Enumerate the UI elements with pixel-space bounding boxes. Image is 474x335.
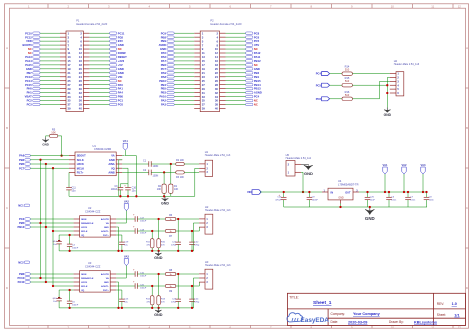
svg-text:NC2: NC2 [18,260,24,264]
resistor R15 510 [330,76,353,87]
svg-text:10u: 10u [132,190,137,193]
connector H5 Header-Male 2.54_1x2 [286,153,312,176]
svg-text:39: 39 [68,107,72,111]
connector P2 Header-Female 2.54_2x20 [159,19,262,112]
svg-text:PA3: PA3 [161,103,167,107]
svg-text:U4: U4 [338,179,342,183]
capacitor C16 10u [53,290,74,308]
svg-text:SDIN: SDIN [81,219,87,221]
svg-text:L79M05ABDT-TR: L79M05ABDT-TR [338,183,359,187]
svg-text:OUT: OUT [345,191,351,194]
resistor R14 510 [330,65,353,76]
svg-text:PB14: PB14 [254,83,261,87]
svg-text:PB1: PB1 [254,75,260,79]
connector H2 Header-Male 2.54_1x3 [199,205,231,234]
svg-text:VQ: VQ [81,235,84,237]
svg-text:PA8: PA8 [161,75,167,79]
U3 input net flags [17,272,30,284]
svg-text:PH1: PH1 [27,91,33,95]
svg-text:PC3: PC3 [19,217,25,221]
junction LRCK bus [45,163,47,165]
svg-text:PA1: PA1 [118,87,124,91]
svg-text:PB5: PB5 [19,221,25,225]
svg-text:Your Company: Your Company [353,312,381,316]
svg-text:VA2: VA2 [401,163,407,167]
svg-text:PC11: PC11 [118,31,125,35]
svg-text:GND: GND [109,158,115,162]
junction C4 top [68,234,70,236]
title block [287,293,465,325]
svg-text:GND: GND [365,216,375,221]
junction C7 flag [403,191,405,193]
wire H4 gnd bus [387,78,390,108]
svg-text:FILT+: FILT+ [103,290,109,292]
svg-text:PA4: PA4 [118,91,124,95]
resistor R11 470 [146,231,154,251]
svg-text:PC1: PC1 [118,99,124,103]
svg-text:100uF: 100uF [140,232,147,234]
svg-text:C: C [466,206,468,210]
op-amp U3 CS4344-CZZ [74,261,117,292]
svg-text:PA10: PA10 [18,280,25,284]
svg-text:PC8: PC8 [254,31,260,35]
capacitor C18 100uF [116,226,147,235]
svg-text:C: C [6,206,8,210]
power flag VA (C6) [382,163,388,192]
wire U1 GND pin drop [119,160,122,197]
svg-text:12: 12 [458,4,462,8]
svg-text:470p: 470p [171,245,177,247]
svg-text:CS4344-CZZ: CS4344-CZZ [85,264,101,268]
svg-text:NC: NC [254,47,258,51]
capacitor C23 470p [171,274,181,308]
svg-text:VBAT: VBAT [25,95,32,99]
resistor R6 1k [165,214,175,221]
junctions bus taps [39,222,41,224]
svg-text:PA0: PA0 [118,83,124,87]
svg-text:PB0: PB0 [118,95,124,99]
U1 input net flags [19,154,69,171]
junction C8 flag [422,191,424,193]
svg-text:LRCK: LRCK [81,227,87,229]
svg-text:470p: 470p [194,302,200,304]
junction rail C16 [127,195,129,197]
svg-text:CS5343-CZZR: CS5343-CZZR [94,147,111,151]
svg-text:NC: NC [254,103,258,107]
svg-text:VA: VA [106,222,109,225]
U2 input net flags [17,217,30,229]
svg-text:100nF: 100nF [72,248,79,250]
svg-text:Header-Female-2.54_2x20: Header-Female-2.54_2x20 [76,22,108,26]
svg-text:MCLK: MCLK [77,166,85,170]
wire header pin2 to rail [193,223,199,251]
svg-text:GND: GND [384,113,392,117]
svg-text:PC3: PC3 [27,103,33,107]
resistor R8 1k [165,269,175,276]
junction H4 a [386,84,388,86]
svg-text:DEM#MCLK: DEM#MCLK [81,278,94,280]
svg-text:PC10: PC10 [25,31,32,35]
svg-text:VA1: VA1 [123,139,129,143]
junction R10 top [157,218,159,220]
svg-text:PA11: PA11 [254,55,261,59]
svg-text:PA2: PA2 [161,99,167,103]
wire LRCK vertical bus [45,164,47,282]
svg-text:100N: 100N [153,165,159,168]
svg-text:PC6: PC6 [254,35,260,39]
junction H5/VIN [302,191,304,193]
svg-text:AGND: AGND [254,91,262,95]
svg-text:REV:: REV: [437,302,444,306]
capacitor C4 100nF [67,235,79,251]
svg-text:+3V3: +3V3 [118,59,125,63]
svg-text:PC7: PC7 [161,67,167,71]
svg-text:SDOUT: SDOUT [77,154,86,158]
svg-text:AINB: AINB [108,171,114,175]
node NC2 [18,260,29,264]
svg-text:40: 40 [215,107,219,111]
svg-text:PC14: PC14 [25,79,32,83]
svg-text:100n: 100n [391,199,397,201]
ground R5 [42,136,49,147]
power flag VA (U2) [116,200,129,223]
node PC6 [316,97,330,101]
svg-text:LRCK: LRCK [77,162,84,166]
svg-text:MCLK: MCLK [81,231,88,233]
svg-text:10uF: 10uF [370,199,376,201]
svg-text:Sheet_1: Sheet_1 [313,300,332,306]
junction rail R4 [163,195,165,197]
svg-text:VDD: VDD [26,39,32,43]
capacitor C6 100n [386,192,397,207]
regulator U4 L79M05ABDT-TR [322,179,359,203]
svg-text:39: 39 [202,107,206,111]
junction gnd stem [369,206,371,208]
svg-text:10K: 10K [157,188,162,191]
ground H5 [301,164,313,176]
svg-text:GND: GND [42,143,48,147]
svg-text:PC9: PC9 [161,31,167,35]
svg-text:VQ: VQ [111,166,115,170]
svg-text:100nF: 100nF [72,305,79,307]
svg-text:40: 40 [79,107,83,111]
svg-text:10K: 10K [174,188,179,191]
svg-text:PC4: PC4 [316,72,322,76]
junction R11 top [151,230,153,232]
ground DAC rail [154,251,163,260]
resistor R13 470 [157,274,166,308]
capacitor C10 100uF [116,269,147,278]
svg-text:GND: GND [304,171,313,176]
svg-text:Header-Male 2.54_1x3: Header-Male 2.54_1x3 [205,154,231,157]
capacitor C3 100nF [111,184,123,197]
capacitor C20 100uF [116,281,147,290]
junction R13 top [157,273,159,275]
junction R5/SDOUT [60,154,62,156]
title text [289,295,332,306]
svg-text:GND: GND [161,202,169,206]
wire AOUTL [137,230,165,232]
capacitor C1 100N [122,160,158,168]
company cell [331,312,381,316]
junction rail VA drop [135,195,137,197]
svg-text:AOUTL: AOUTL [101,230,109,233]
svg-text:NC: NC [28,51,32,55]
svg-text:Header-Male 2.54_1x3: Header-Male 2.54_1x3 [205,209,231,212]
svg-text:100uF: 100uF [140,287,147,289]
wire bottom rail [284,206,427,208]
junction C9 top [308,191,310,193]
svg-text:GND: GND [26,67,32,71]
svg-text:PA5: PA5 [161,51,167,55]
svg-text:A: A [466,46,468,50]
wire VIN to U4 IN [260,191,322,193]
svg-text:PB3: PB3 [161,91,167,95]
svg-text:PB15: PB15 [254,79,261,83]
wire VQ to C3/C16 [120,168,128,184]
ground DAC rail [154,308,163,317]
svg-text:470p: 470p [194,245,200,247]
svg-text:GND: GND [160,47,166,51]
svg-text:Header-Male 2.54_1x6: Header-Male 2.54_1x6 [394,63,420,66]
resistor R9 1k [165,284,175,293]
svg-text:VA3: VA3 [420,163,426,167]
junction AINA/R1 [170,163,172,165]
node PC4 [316,72,330,76]
capacitor C9 100nF [307,192,319,207]
capacitor C14 10u [53,235,74,251]
svg-text:FILT+: FILT+ [103,235,109,237]
wire U1 ground rail [69,195,171,197]
op-amp U2 CS4344-CZZ [74,206,117,237]
svg-text:2020-03-09: 2020-03-09 [348,320,367,324]
svg-text:1.0: 1.0 [452,302,457,306]
junction AINB/R4 [163,171,165,173]
svg-text:PA12: PA12 [254,51,261,55]
junction C8 top [425,191,427,193]
wire header pin2 to rail [193,278,199,308]
svg-text:100nF: 100nF [312,199,319,201]
junction C25 top [283,191,285,193]
svg-text:PC15: PC15 [25,83,32,87]
svg-text:470uF: 470uF [275,199,282,201]
wire OUT rail [359,191,427,193]
resistor R2 10K [176,159,185,166]
svg-text:AOUTR: AOUTR [101,218,109,221]
svg-text:B: B [6,126,8,130]
resistor R10 470 [157,219,166,251]
svg-text:GND: GND [104,227,109,229]
date cell [331,320,438,324]
svg-text:VIN: VIN [118,75,123,79]
junction H4 b [386,92,388,94]
svg-text:AVDD: AVDD [159,43,166,47]
wire GND pin drop [116,282,118,308]
resistor R12 470 [146,286,154,308]
capacitor C24 470p [189,286,200,308]
junction R12 top [151,285,153,287]
svg-text:R3 10K: R3 10K [176,176,184,179]
capacitor C19 10u [116,235,129,251]
svg-text:GND: GND [104,282,109,284]
ground U1 rail [161,196,169,205]
wire U1 VA drop [125,156,136,197]
svg-text:A: A [6,46,8,50]
svg-text:VA: VA [111,154,115,158]
svg-text:PB6: PB6 [19,272,25,276]
node NC1 [18,204,29,208]
resistor R16 510 [330,90,353,101]
svg-text:PB13: PB13 [17,225,24,229]
svg-text:11: 11 [431,4,434,8]
svg-text:100n: 100n [410,199,416,201]
wires to DAC inputs [30,219,73,231]
svg-text:VIN: VIN [247,190,252,194]
svg-text:MCLK: MCLK [81,286,88,288]
svg-text:PC6: PC6 [316,97,322,101]
connector H4 Header-Male 2.54_1x6 [390,59,420,96]
connector H3 Header-Male 2.54_1x3 [199,260,231,289]
svg-text:GND: GND [118,43,124,47]
svg-text:NC: NC [118,79,122,83]
svg-text:VA3: VA3 [124,255,130,259]
wire to header pin3 [176,227,200,231]
svg-text:EasyEDA: EasyEDA [301,317,330,324]
svg-text:D: D [466,286,468,290]
svg-text:PC13: PC13 [25,75,32,79]
junction MCLK bus [52,167,54,169]
svg-text:PB3: PB3 [19,158,25,162]
svg-text:SCLK: SCLK [77,158,84,162]
svg-text:100uF: 100uF [140,275,147,277]
svg-text:NC: NC [28,47,32,51]
svg-text:PA6: PA6 [161,55,167,59]
svg-text:GND: GND [154,313,163,317]
wire to header pin3 [176,282,200,286]
op-amp U1 CS5343-CZZR [69,144,122,176]
junction U4 gnd [339,206,341,208]
wire R5 to SDOUT [58,136,62,156]
wire MCLK vertical bus [52,168,54,286]
svg-text:1/1: 1/1 [454,313,459,317]
resistor R5 10K [49,128,57,138]
svg-text:AOUTR: AOUTR [101,273,109,276]
svg-text:NC: NC [254,99,258,103]
wire R16 to H4 pin3 [352,81,389,98]
svg-text:PC7: PC7 [19,166,25,170]
svg-text:PB5: PB5 [161,87,167,91]
junction C21 top [177,218,179,220]
svg-text:PC10: PC10 [17,276,24,280]
resistor R7 1k [165,229,175,238]
wire AOUTL [137,285,165,287]
node VIN [247,190,261,195]
wire H5 pin1 to VIN rail [301,172,303,192]
connector P1 Header-Female 2.54_2x20 [23,19,128,112]
junction C5 top [68,289,70,291]
svg-text:VA2: VA2 [124,200,130,204]
svg-text:510: 510 [345,79,350,83]
svg-text:PA10: PA10 [159,95,166,99]
svg-text:AOUTL: AOUTL [101,285,109,288]
capacitor C2 100N [122,169,158,177]
svg-text:NC: NC [254,63,258,67]
svg-text:10u: 10u [72,189,77,192]
svg-text:VA: VA [106,277,109,280]
svg-text:BOOT0: BOOT0 [23,43,33,47]
svg-text:PB7: PB7 [27,71,33,75]
junction C24 top [191,285,193,287]
svg-text:U5V: U5V [254,43,259,47]
svg-text:R2 10K: R2 10K [176,159,184,162]
capacitor C11 10u [66,172,76,196]
capacitor C21 470p [171,219,181,251]
node PC5 [316,83,330,87]
wires to DAC inputs [30,274,73,286]
svg-text:PA6: PA6 [19,154,25,158]
capacitor C17 100uF [116,214,147,223]
svg-text:LRCK: LRCK [81,282,87,284]
rail junctions [68,307,193,309]
svg-text:D: D [6,286,8,290]
junction C6 top [388,191,390,193]
capacitor C16 10u [124,184,136,197]
junction rail C3 [119,195,121,197]
svg-text:PC0: PC0 [118,103,124,107]
power flag VA (C7) [401,163,407,192]
power flag VA (C8) [420,163,426,192]
junction C22 top [191,230,193,232]
svg-text:PC2: PC2 [27,99,33,103]
rev cell [437,302,457,306]
sheet cell [437,313,460,317]
svg-text:PB8: PB8 [161,35,167,39]
wire AOUTR [137,273,165,275]
power flag VA1 (U1) [122,139,128,155]
wire C2 to R3 [151,171,178,173]
svg-text:CS4344-CZZ: CS4344-CZZ [85,209,101,213]
wire R3 to H1 [184,171,199,173]
wire AOUTR [137,218,165,220]
wire C1 to R2 [151,163,178,165]
junction C7 top [407,191,409,193]
svg-text:IN: IN [331,191,334,194]
junctions bus taps [39,277,41,279]
svg-text:Company:: Company: [331,312,346,316]
junction SCLK bus [39,159,41,161]
svg-text:NC: NC [118,47,122,51]
power flag VA (U3) [116,255,129,278]
svg-text:PB13: PB13 [254,87,261,91]
wire DAC ground rail [59,307,194,309]
svg-text:10: 10 [391,4,395,8]
svg-text:SDIN: SDIN [81,274,87,276]
ground H4 [384,108,392,117]
wire to header pin1 [176,218,199,220]
svg-text:E5V: E5V [118,39,123,43]
wire R2 to H1 [184,163,199,165]
rail junctions [68,250,193,252]
svg-text:PA15: PA15 [25,63,32,67]
svg-text:NC1: NC1 [18,204,24,208]
svg-text:PC5: PC5 [316,83,322,87]
svg-text:Sheet:: Sheet: [437,313,446,317]
svg-text:PB5: PB5 [19,162,25,166]
connector H1 Header-Male 2.54_1x3 [199,150,231,176]
svg-text:Drawn By:: Drawn By: [389,320,404,324]
capacitor C8 100n [424,192,435,207]
svg-text:100n: 100n [429,199,435,201]
